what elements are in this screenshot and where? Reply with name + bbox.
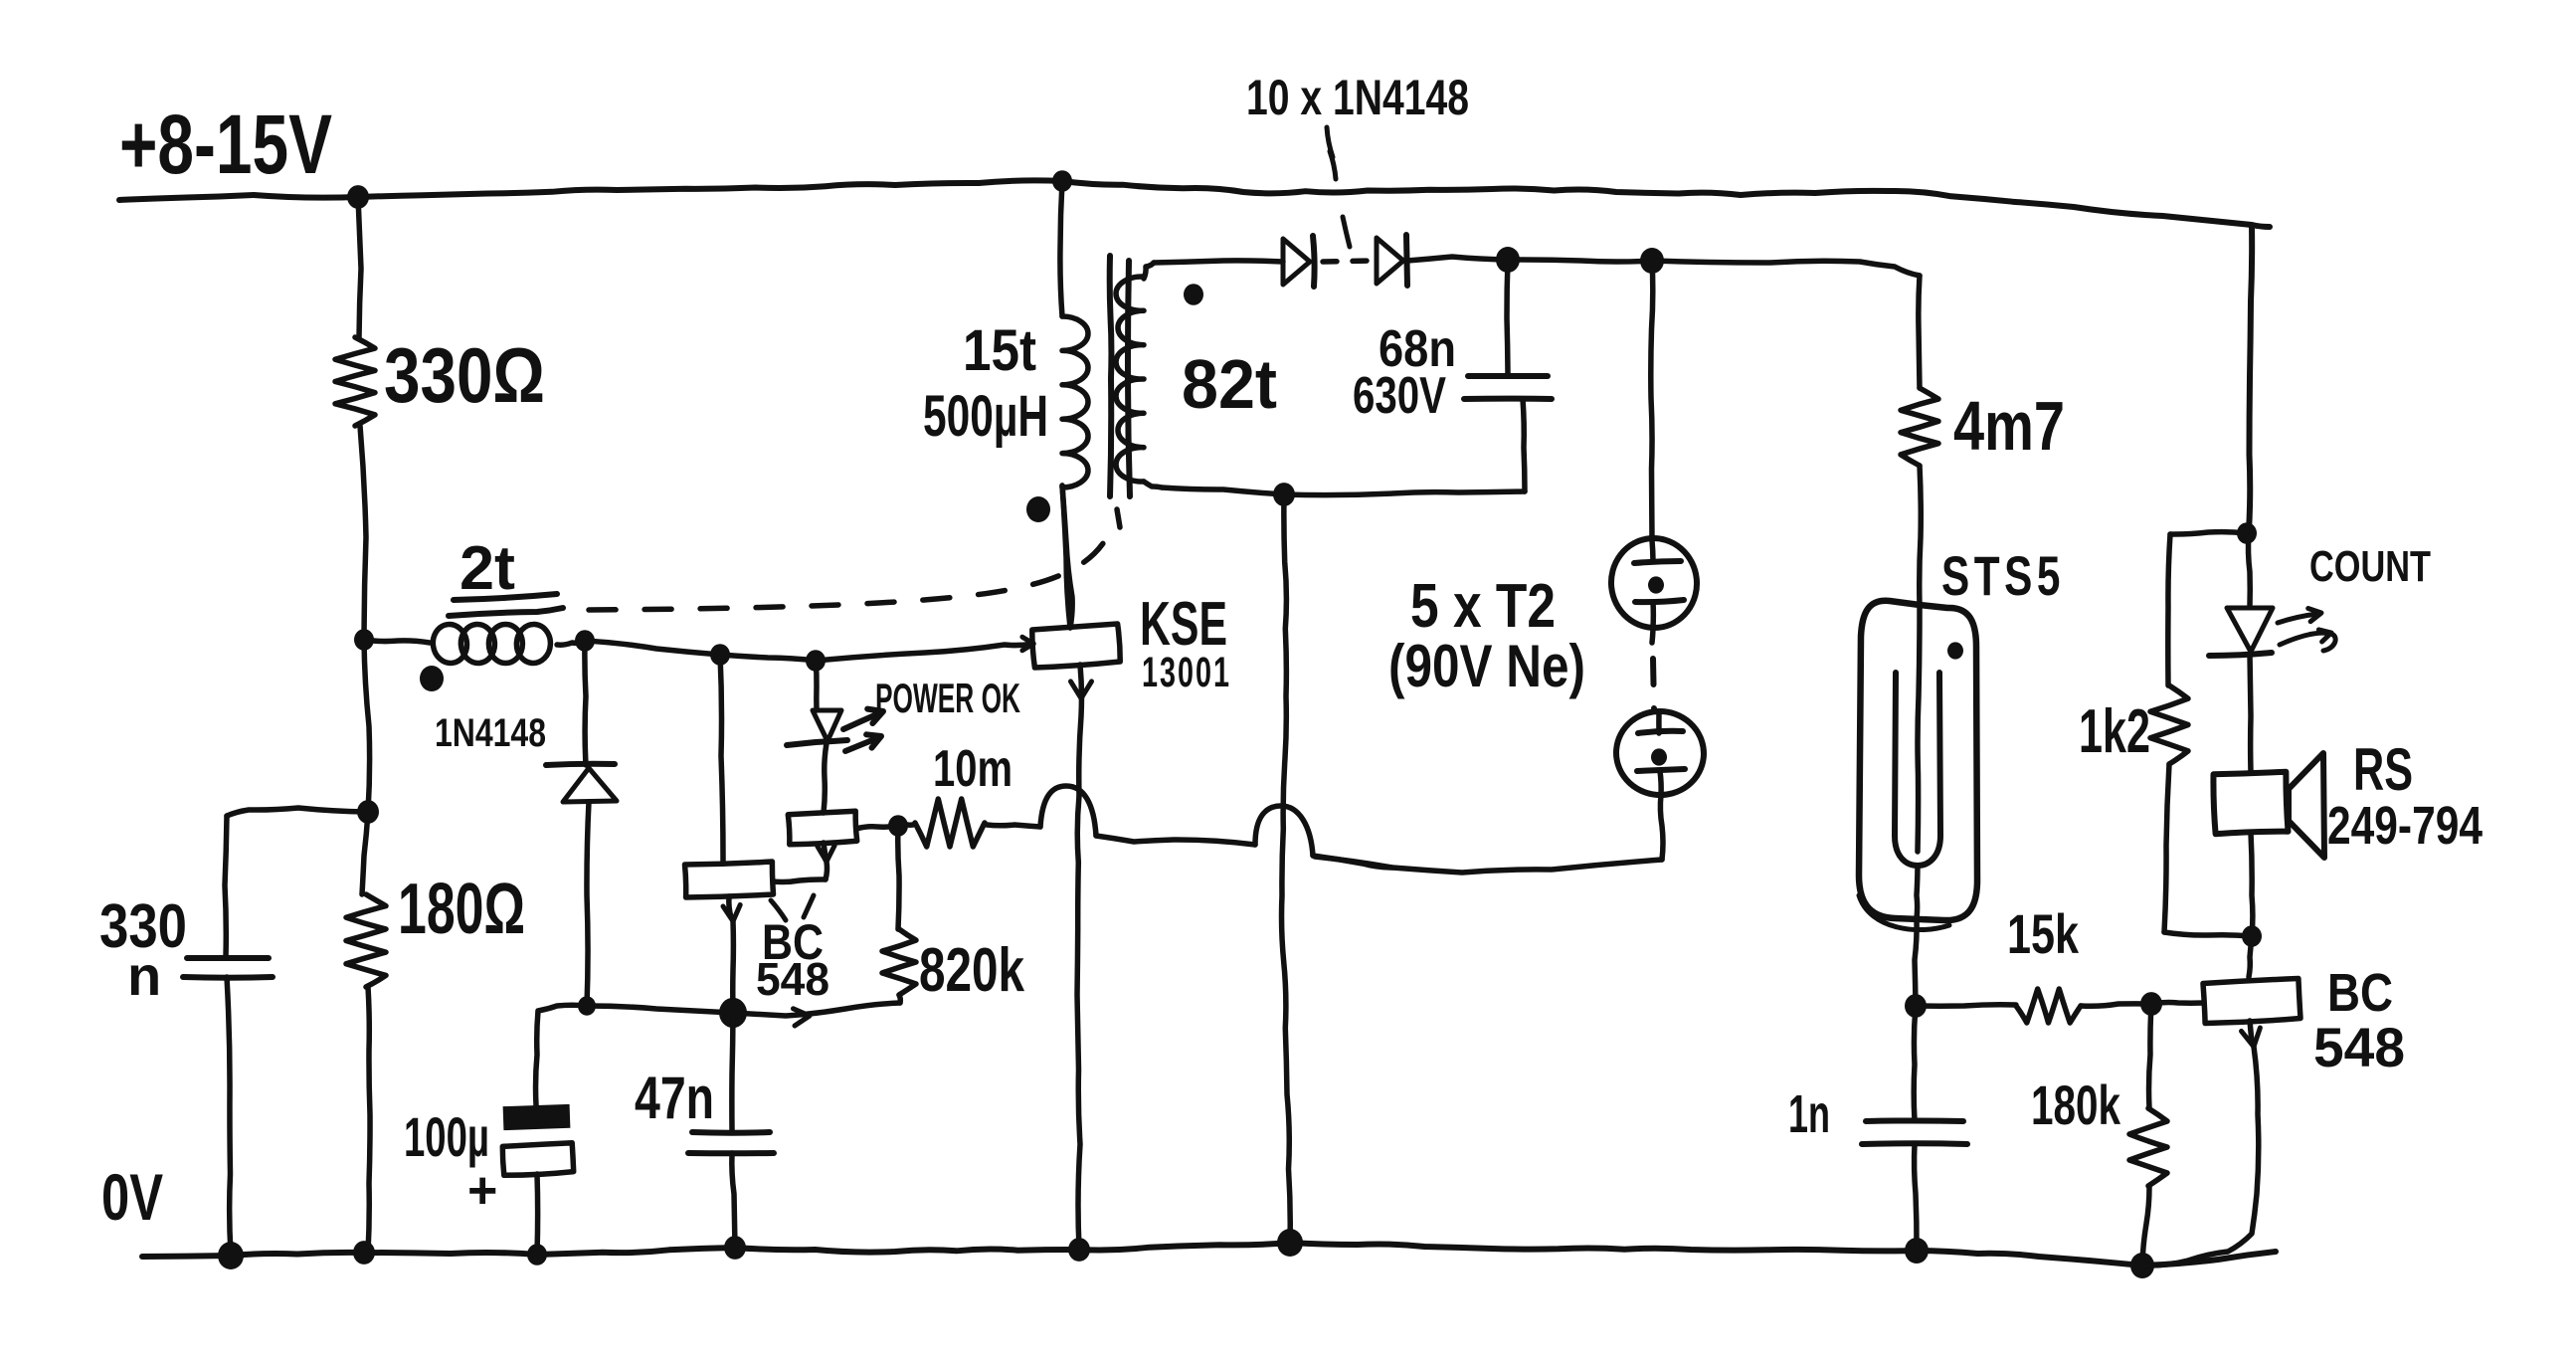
- svg-text:2t: 2t: [460, 534, 515, 603]
- svg-text:548: 548: [2313, 1016, 2405, 1078]
- svg-text:47n: 47n: [635, 1065, 714, 1131]
- svg-text:1k2: 1k2: [2079, 697, 2150, 766]
- svg-text:POWER OK: POWER OK: [875, 675, 1020, 721]
- svg-text:249-794: 249-794: [2327, 796, 2483, 856]
- svg-text:COUNT: COUNT: [2309, 542, 2431, 591]
- svg-text:15k: 15k: [2007, 902, 2080, 965]
- svg-text:1N4148: 1N4148: [435, 711, 546, 755]
- svg-text:RS: RS: [2353, 736, 2413, 803]
- svg-text:10 x 1N4148: 10 x 1N4148: [1246, 70, 1469, 125]
- svg-text:n: n: [127, 944, 161, 1007]
- svg-text:15t: 15t: [963, 318, 1036, 383]
- svg-text:5 x T2: 5 x T2: [1410, 572, 1556, 641]
- svg-text:820k: 820k: [919, 936, 1024, 1005]
- svg-text:630V: 630V: [1353, 367, 1446, 425]
- svg-text:330Ω: 330Ω: [384, 331, 545, 419]
- svg-text:(90V Ne): (90V Ne): [1388, 633, 1585, 699]
- svg-text:82t: 82t: [1182, 345, 1277, 423]
- svg-text:100µ: 100µ: [404, 1105, 489, 1168]
- svg-text:+8-15V: +8-15V: [119, 97, 332, 191]
- svg-text:4m7: 4m7: [1953, 387, 2065, 465]
- svg-text:548: 548: [756, 953, 829, 1005]
- svg-text:10m: 10m: [933, 740, 1012, 798]
- svg-text:+: +: [467, 1162, 497, 1220]
- svg-text:180Ω: 180Ω: [398, 870, 525, 949]
- svg-text:500µH: 500µH: [923, 384, 1048, 449]
- svg-text:180k: 180k: [2031, 1073, 2121, 1136]
- svg-text:1n: 1n: [1788, 1084, 1830, 1144]
- svg-text:BC: BC: [2327, 963, 2393, 1023]
- svg-text:13001: 13001: [1142, 649, 1231, 696]
- svg-text:STS5: STS5: [1941, 544, 2065, 607]
- svg-text:0V: 0V: [101, 1160, 163, 1234]
